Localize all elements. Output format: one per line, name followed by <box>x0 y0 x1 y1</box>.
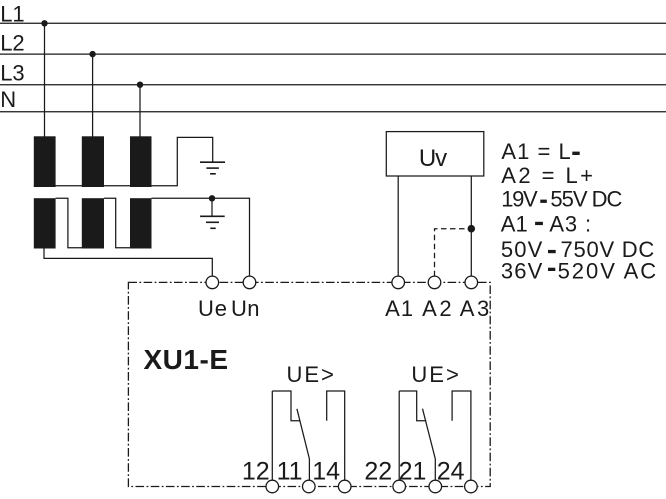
wire secondary top segment T2-v2 <box>104 198 130 248</box>
wire L1 drop to T1 <box>44 23 46 137</box>
terminal A2 <box>428 276 441 289</box>
svg-text:XU1-E: XU1-E <box>144 344 229 375</box>
terminal 22 <box>393 480 406 493</box>
transformer T3 secondary winding <box>130 198 152 248</box>
svg-text:N: N <box>0 87 16 112</box>
wire secondary output to Un <box>152 198 250 276</box>
svg-text:L1: L1 <box>0 1 24 26</box>
node secondary star point <box>209 195 215 201</box>
terminal A3 <box>465 276 478 289</box>
svg-text:A2 = L+: A2 = L+ <box>501 163 593 188</box>
svg-text:Ue: Ue <box>198 296 227 321</box>
terminal Ue <box>206 276 219 289</box>
terminal A1 <box>392 276 405 289</box>
svg-text:L2: L2 <box>0 31 24 56</box>
wire L3 line <box>0 84 666 86</box>
svg-text:12: 12 <box>242 458 270 486</box>
wire NC fixed contact hook <box>399 391 426 421</box>
wire Uv left lead to A1 <box>397 176 399 276</box>
wire ground2 stub <box>211 198 213 216</box>
svg-text:A3: A3 <box>460 296 490 321</box>
node on L3 <box>137 82 143 88</box>
wire NO fixed contact <box>452 391 471 480</box>
wire N line <box>0 111 666 113</box>
relay box XU1-E dashed outline <box>128 282 490 486</box>
terminal 21 <box>429 480 442 493</box>
wire terminal 12 leg <box>271 391 273 480</box>
wire Uv right lead to A3 <box>470 176 472 276</box>
transformer T1 secondary winding <box>34 198 56 248</box>
svg-text:22: 22 <box>364 458 392 486</box>
svg-text:A2: A2 <box>422 296 452 321</box>
svg-text:14: 14 <box>312 458 340 486</box>
wire secondary output to Ue <box>44 249 212 277</box>
svg-text:19V: 19V <box>501 187 538 212</box>
svg-text:520V AC: 520V AC <box>558 259 657 284</box>
terminal 12 <box>266 480 279 493</box>
terminal Un <box>243 276 256 289</box>
svg-text:A1: A1 <box>385 296 413 321</box>
svg-text:Uv: Uv <box>419 145 447 172</box>
wire L3 drop to T3 <box>139 85 141 137</box>
svg-text:UE>: UE> <box>411 362 458 387</box>
wire switch arm to terminal 11 <box>297 409 310 481</box>
ground symbol secondary side <box>200 216 225 228</box>
transformer T2 primary winding <box>82 136 104 187</box>
svg-text:A3 :: A3 : <box>549 212 591 237</box>
svg-text:L3: L3 <box>0 61 24 86</box>
transformer T1 primary winding <box>34 136 56 187</box>
transformer T2 secondary winding <box>82 198 104 248</box>
wire terminal 22 leg <box>398 391 400 480</box>
svg-text:11: 11 <box>277 458 303 486</box>
wire L2 line <box>0 53 666 55</box>
wire L1 line <box>0 22 666 24</box>
svg-text:55V DC: 55V DC <box>550 187 622 212</box>
wire primary bottom bus <box>34 137 213 185</box>
node on L2 <box>89 51 95 57</box>
terminal 11 <box>303 480 316 493</box>
wire secondary top segment T1-v1 <box>56 198 82 248</box>
wire NC fixed contact hook <box>272 391 300 421</box>
svg-text:Un: Un <box>231 296 259 321</box>
svg-text:24: 24 <box>437 458 465 486</box>
wire NO fixed contact <box>327 391 345 480</box>
terminal 14 <box>338 480 351 493</box>
wire L2 drop to T2 <box>92 54 94 137</box>
relay contact 1 <box>272 391 344 480</box>
relay contact 2 <box>399 391 471 480</box>
transformer T3 primary winding <box>130 136 152 187</box>
svg-text:36V: 36V <box>501 259 543 284</box>
ground symbol primary side <box>200 162 225 174</box>
svg-text:UE>: UE> <box>287 362 334 387</box>
terminal 24 <box>465 480 478 493</box>
svg-text:A1 = L: A1 = L <box>501 139 570 164</box>
svg-text:A1: A1 <box>501 212 528 237</box>
svg-text:21: 21 <box>399 458 427 486</box>
node A3 junction <box>468 225 476 233</box>
power supply unit Uv <box>386 132 484 176</box>
node on L1 <box>41 20 47 26</box>
wire switch arm to terminal 21 <box>423 409 436 481</box>
wire dashed A2 link <box>435 229 472 277</box>
